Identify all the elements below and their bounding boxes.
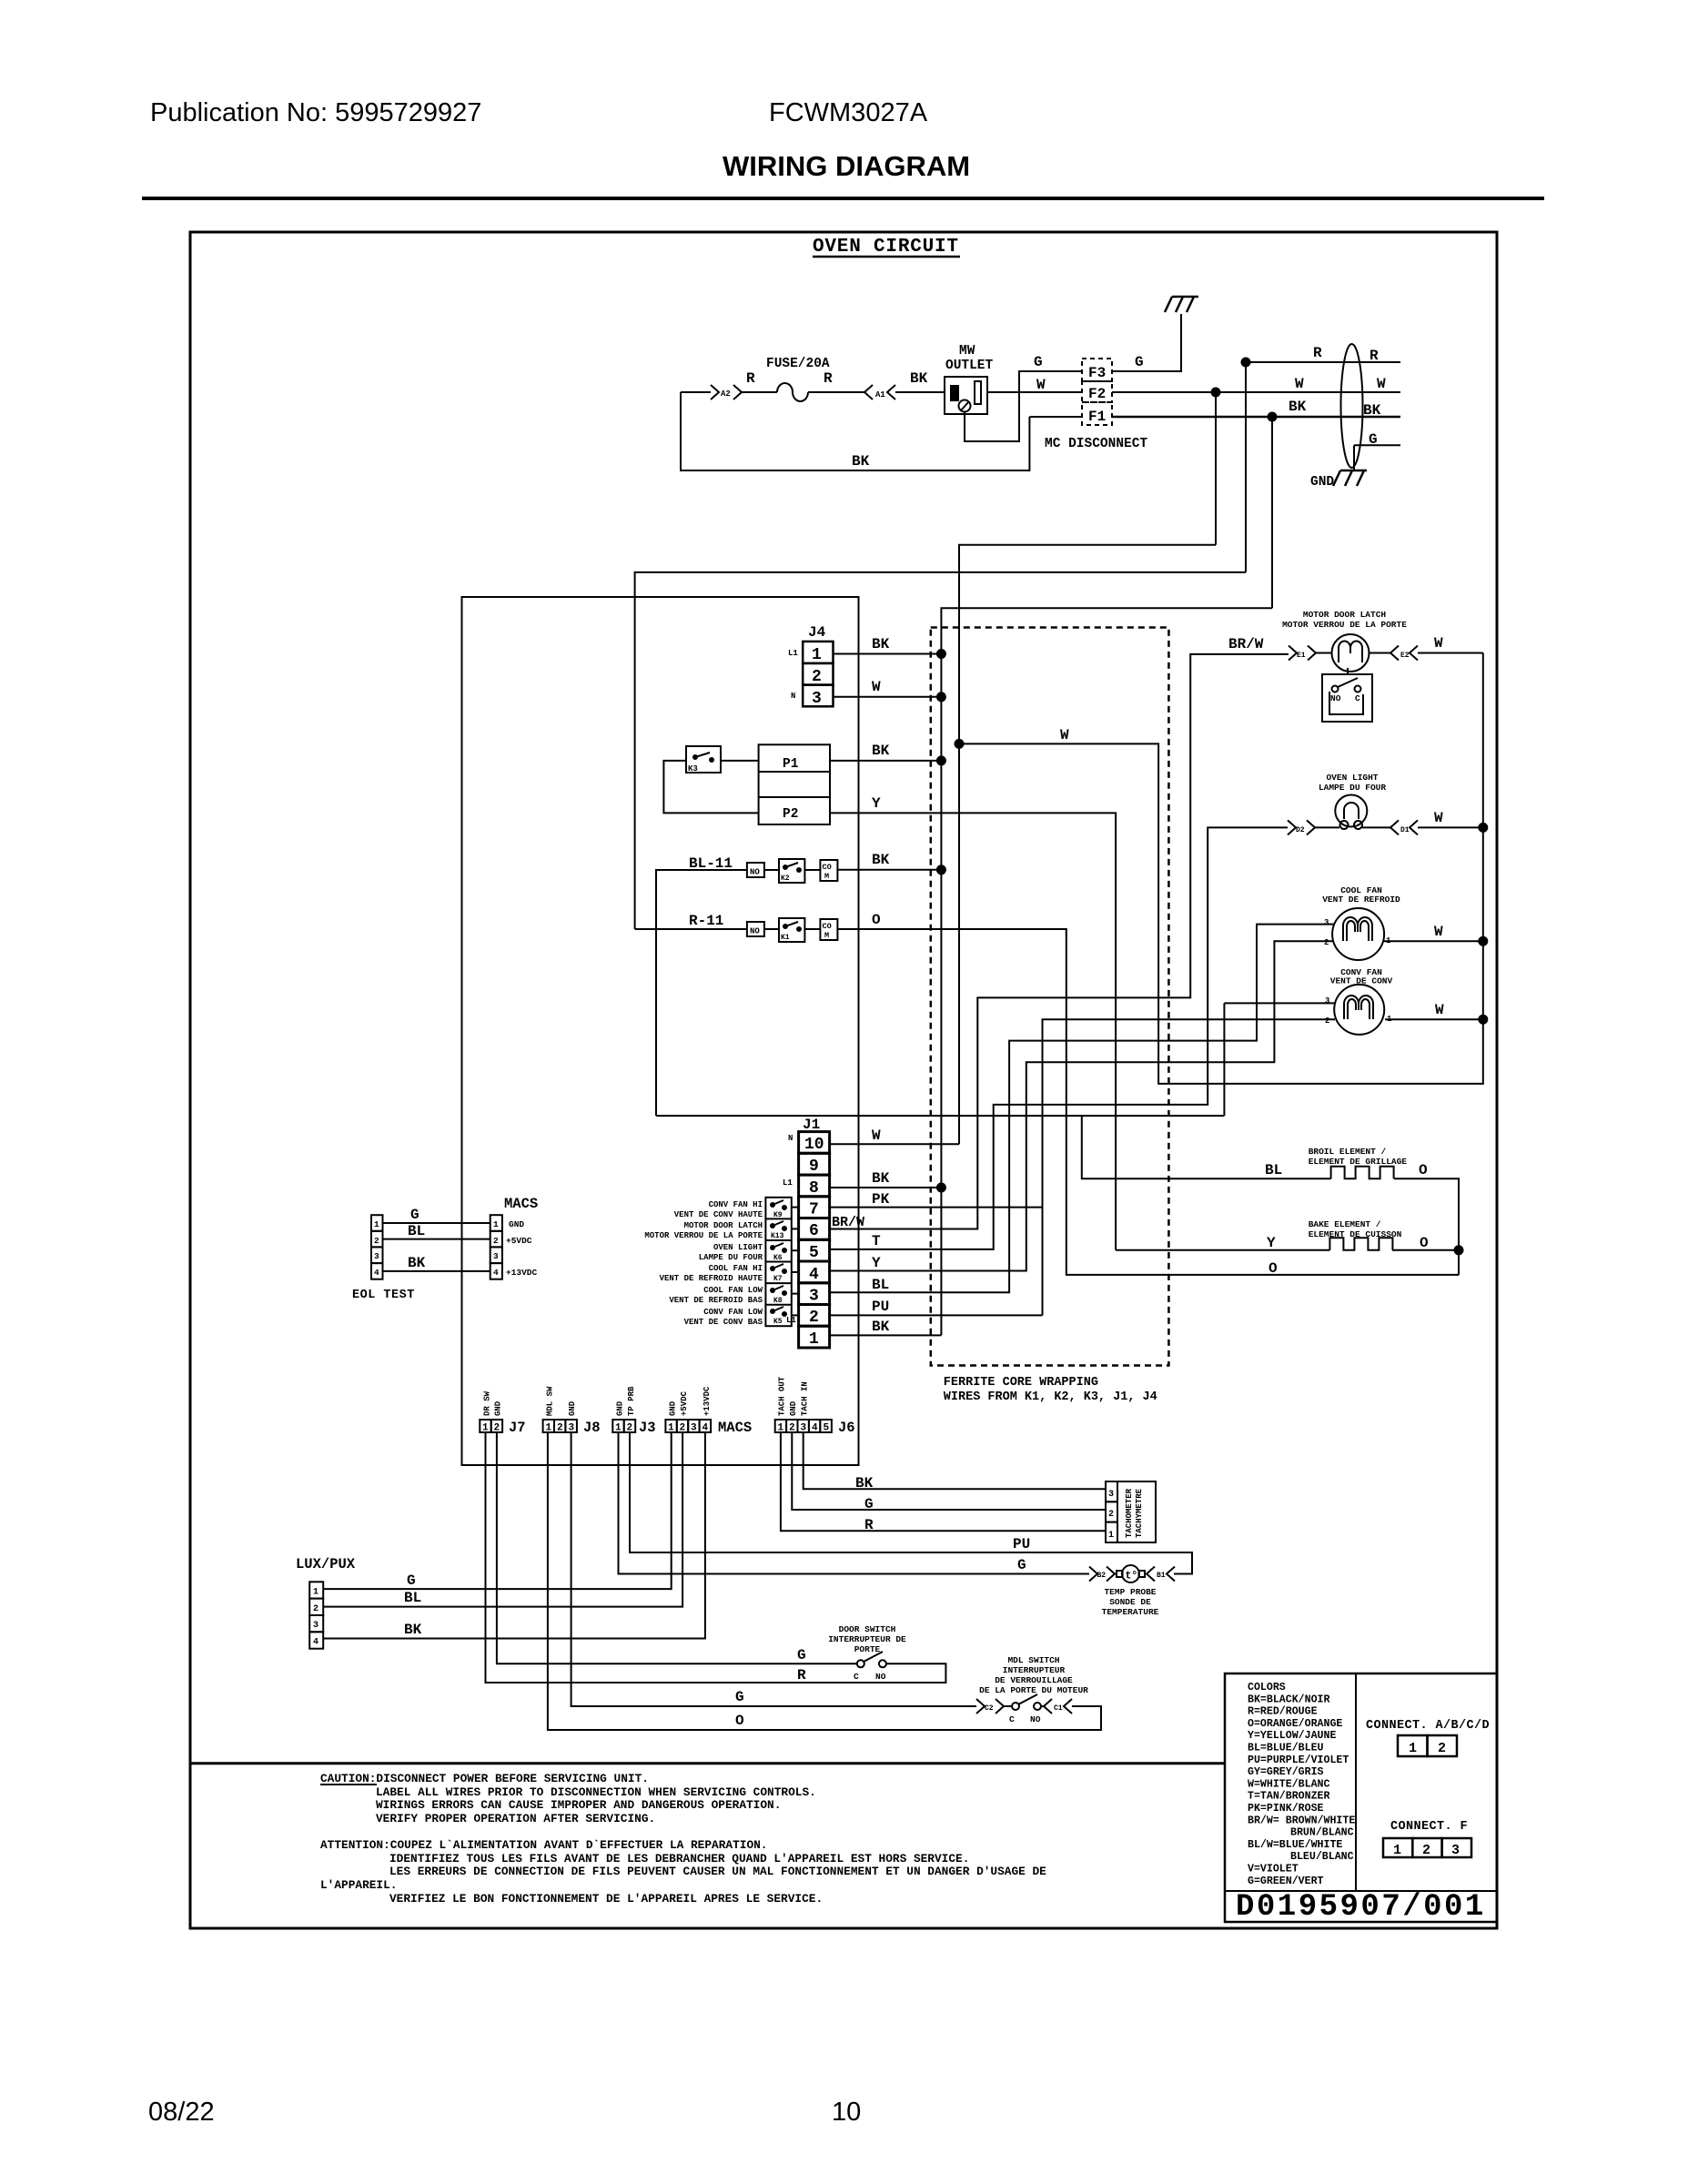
wire G EOL1 to MACS1 <box>383 1222 490 1224</box>
svg-text:1: 1 <box>812 646 822 664</box>
svg-text:OUTLET: OUTLET <box>945 359 994 373</box>
svg-text:TACH IN: TACH IN <box>801 1381 810 1416</box>
node K2 junction <box>937 865 945 874</box>
connector arrow B2 <box>1089 1567 1115 1582</box>
svg-text:Y: Y <box>872 1255 881 1271</box>
svg-text:G: G <box>1135 354 1144 370</box>
svg-text:+5VDC: +5VDC <box>506 1236 532 1246</box>
MDL switch contacts <box>1004 1705 1012 1707</box>
svg-text:C: C <box>1009 1714 1015 1724</box>
svg-text:LES ERREURS DE CONNECTION DE F: LES ERREURS DE CONNECTION DE FILS PEUVEN… <box>389 1865 1046 1878</box>
relay P1 P2 box <box>759 744 830 824</box>
node BK bus top junction <box>1269 413 1277 421</box>
fuse block F3 (dashed) <box>1082 359 1112 381</box>
wire G to GND (bottom right) <box>1354 445 1400 470</box>
wire Y from P2 to bake element feed <box>830 813 1116 1249</box>
caution text block <box>320 1772 1046 1906</box>
svg-text:VENT DE CONV HAUTE: VENT DE CONV HAUTE <box>674 1210 763 1219</box>
svg-text:1: 1 <box>374 1219 379 1229</box>
svg-text:2: 2 <box>812 668 822 686</box>
svg-text:R-11: R-11 <box>689 913 723 929</box>
svg-text:W: W <box>1036 377 1046 393</box>
node J1-8 junction <box>937 1184 945 1192</box>
svg-text:3: 3 <box>1325 996 1329 1006</box>
wire LUX2 BL to MACS2 <box>323 1432 682 1607</box>
node bake broil junction <box>1455 1246 1463 1254</box>
node cool fan W junction <box>1479 937 1487 945</box>
wire BK EOL4 to MACS4 <box>383 1270 490 1272</box>
svg-text:K9: K9 <box>773 1211 783 1219</box>
svg-text:BR/W: BR/W <box>832 1215 864 1230</box>
svg-text:3: 3 <box>801 1423 807 1434</box>
node oven light W junction <box>1479 824 1487 832</box>
svg-text:J7: J7 <box>509 1420 526 1436</box>
wire cool fan pin1 to W bus <box>1384 940 1483 942</box>
svg-text:COLORS: COLORS <box>1248 1682 1286 1694</box>
svg-text:t°: t° <box>1126 1571 1138 1582</box>
connector arrow C1 <box>1044 1699 1072 1714</box>
svg-text:P1: P1 <box>783 757 799 772</box>
relay K5 contacts <box>771 1309 774 1313</box>
fuse block F1 (dashed) <box>1082 402 1112 425</box>
svg-text:COOL FAN HI: COOL FAN HI <box>709 1264 763 1273</box>
wire PU net: J1-2 up joining conv fan low feed <box>830 1314 1043 1316</box>
svg-text:J4: J4 <box>808 624 826 641</box>
svg-text:DE LA PORTE DU MOTEUR: DE LA PORTE DU MOTEUR <box>979 1685 1088 1695</box>
node J4-3 junction <box>937 693 945 701</box>
svg-text:2: 2 <box>1438 1741 1446 1756</box>
connector MACS <box>490 1215 502 1231</box>
wire D1 to W bus <box>1418 826 1483 828</box>
svg-text:DOOR SWITCH: DOOR SWITCH <box>839 1624 896 1634</box>
wire K2 row segments <box>764 869 821 871</box>
svg-text:BAKE ELEMENT /: BAKE ELEMENT / <box>1309 1219 1381 1229</box>
wire G from F3 to ground <box>1112 314 1181 371</box>
svg-text:CONV FAN HI: CONV FAN HI <box>709 1200 763 1209</box>
svg-text:WIRINGS ERRORS CAN CAUSE IMPRO: WIRINGS ERRORS CAN CAUSE IMPROPER AND DA… <box>376 1798 781 1812</box>
svg-text:BL: BL <box>872 1277 889 1293</box>
svg-text:2: 2 <box>374 1236 379 1246</box>
svg-text:BK: BK <box>852 453 870 470</box>
svg-text:G: G <box>864 1496 874 1512</box>
svg-text:4: 4 <box>374 1268 379 1278</box>
header rule <box>142 197 1544 200</box>
contact COM box (K2 row) <box>820 860 837 881</box>
node W bus top junction <box>1212 389 1220 397</box>
svg-text:TP PRB: TP PRB <box>627 1386 636 1416</box>
svg-text:4: 4 <box>702 1423 709 1434</box>
relay K1 box <box>779 918 804 942</box>
svg-text:MC DISCONNECT: MC DISCONNECT <box>1045 437 1147 451</box>
svg-text:V=VIOLET: V=VIOLET <box>1248 1864 1299 1876</box>
node J4-1 junction <box>937 650 945 658</box>
svg-text:L1: L1 <box>788 649 798 658</box>
connector J8 <box>543 1420 554 1432</box>
svg-text:5: 5 <box>809 1244 819 1262</box>
svg-text:VERIFIEZ LE BON FONCTIONNEMENT: VERIFIEZ LE BON FONCTIONNEMENT DE L'APPA… <box>389 1892 823 1906</box>
svg-text:OVEN LIGHT: OVEN LIGHT <box>1326 773 1378 783</box>
svg-text:6: 6 <box>809 1222 819 1240</box>
svg-text:W: W <box>1434 810 1443 826</box>
contact COM box (K1 row) <box>820 919 837 940</box>
svg-text:ATTENTION:COUPEZ L`ALIMENTATIO: ATTENTION:COUPEZ L`ALIMENTATION AVANT D`… <box>320 1838 767 1852</box>
svg-text:4: 4 <box>809 1266 819 1284</box>
svg-text:D1: D1 <box>1400 826 1410 834</box>
svg-text:N: N <box>791 692 795 701</box>
svg-text:PK: PK <box>872 1191 890 1208</box>
svg-text:D0195907/001: D0195907/001 <box>1236 1890 1486 1925</box>
svg-text:VENT DE CONV BAS: VENT DE CONV BAS <box>684 1318 763 1327</box>
svg-text:M: M <box>824 872 829 881</box>
svg-text:BL: BL <box>1265 1162 1282 1178</box>
connector J6 <box>775 1420 786 1432</box>
wire J3-1 G to temp probe <box>619 1432 1090 1574</box>
oven light lamp <box>1335 795 1367 827</box>
svg-text:IDENTIFIEZ TOUS LES FILS AVANT: IDENTIFIEZ TOUS LES FILS AVANT DE LES DE… <box>389 1852 969 1865</box>
svg-text:CAUTION:DISCONNECT POWER BEFOR: CAUTION:DISCONNECT POWER BEFORE SERVICIN… <box>320 1772 649 1785</box>
wire D2 to lamp <box>1315 826 1339 828</box>
svg-text:W=WHITE/BLANC: W=WHITE/BLANC <box>1248 1778 1329 1790</box>
connector arrow E2 <box>1390 646 1418 661</box>
svg-text:10: 10 <box>804 1136 824 1154</box>
svg-text:1: 1 <box>546 1423 552 1434</box>
svg-text:GND: GND <box>509 1219 524 1229</box>
wire lamp to D1 <box>1362 826 1390 828</box>
svg-text:Y: Y <box>872 795 881 812</box>
svg-text:K1: K1 <box>781 934 790 942</box>
svg-text:OVEN LIGHT: OVEN LIGHT <box>713 1243 763 1252</box>
svg-text:W: W <box>1060 727 1069 743</box>
svg-text:J6: J6 <box>838 1420 855 1436</box>
svg-text:L'APPAREIL.: L'APPAREIL. <box>320 1878 397 1892</box>
wire BK bus vertical right <box>1271 417 1273 608</box>
wire K7 to J1-4 <box>792 1271 799 1273</box>
svg-text:GND: GND <box>789 1400 798 1416</box>
connector A/B/C/D <box>1398 1735 1428 1756</box>
wire motor to E2 <box>1370 652 1391 654</box>
wire K9 to J1-7 <box>792 1207 799 1208</box>
svg-text:1: 1 <box>1393 1843 1401 1858</box>
wire conv fan pin1 to W bus <box>1385 1018 1483 1020</box>
connector J7 <box>480 1420 490 1432</box>
svg-text:GND: GND <box>568 1400 577 1416</box>
svg-text:NO: NO <box>1330 693 1341 703</box>
control board box <box>462 597 859 1465</box>
svg-text:FUSE/20A: FUSE/20A <box>766 357 830 371</box>
svg-text:CONNECT. F: CONNECT. F <box>1390 1820 1468 1834</box>
svg-text:K6: K6 <box>773 1254 783 1262</box>
svg-text:1: 1 <box>313 1588 318 1598</box>
svg-text:FERRITE CORE WRAPPING: FERRITE CORE WRAPPING <box>944 1376 1098 1390</box>
svg-text:G: G <box>407 1572 416 1589</box>
svg-text:1: 1 <box>668 1423 674 1434</box>
relay K6 contacts <box>771 1246 774 1249</box>
svg-text:ELEMENT DE GRILLAGE: ELEMENT DE GRILLAGE <box>1309 1157 1408 1167</box>
wire T net: J1-5 to D2 <box>830 827 1288 1249</box>
wire BR/W net: J1-6 to E1 <box>830 654 1289 1229</box>
svg-text:LUX/PUX: LUX/PUX <box>296 1556 356 1572</box>
wire A2 to fuse <box>742 391 777 393</box>
svg-text:10: 10 <box>832 2098 861 2127</box>
svg-text:TACH OUT: TACH OUT <box>778 1376 787 1416</box>
svg-text:MW: MW <box>959 344 975 359</box>
svg-text:G: G <box>1034 354 1043 370</box>
MW outlet box <box>945 377 987 414</box>
ground symbol (top) <box>1165 297 1198 312</box>
wire J8-3 G to MDL switch C2 <box>571 1432 976 1706</box>
wire outlet to F2 <box>987 391 1082 393</box>
wire K13 to J1-6 <box>792 1228 799 1229</box>
wire J4-3 W to bus <box>834 696 942 698</box>
svg-text:G: G <box>1017 1557 1026 1573</box>
connector EOL TEST <box>371 1215 383 1231</box>
wire bake element row <box>1116 1249 1459 1251</box>
svg-text:BK: BK <box>404 1622 422 1638</box>
svg-text:2: 2 <box>313 1604 318 1614</box>
svg-text:BK: BK <box>872 852 890 868</box>
node W branch junction <box>955 740 964 748</box>
connector F <box>1383 1838 1412 1857</box>
svg-text:R: R <box>797 1667 806 1683</box>
svg-text:T: T <box>872 1233 881 1249</box>
bake element <box>1329 1238 1392 1250</box>
svg-text:J3: J3 <box>639 1420 656 1436</box>
svg-text:W: W <box>1434 635 1443 652</box>
wire W from F2 to right stub <box>1112 391 1400 393</box>
connector J4 <box>803 642 833 706</box>
svg-text:2: 2 <box>809 1309 819 1327</box>
legend box <box>1225 1673 1497 1922</box>
wire J1-8 BK row <box>830 1187 942 1188</box>
svg-text:NO: NO <box>875 1672 886 1682</box>
svg-text:CONNECT. A/B/C/D: CONNECT. A/B/C/D <box>1366 1719 1490 1733</box>
svg-text:C: C <box>1355 693 1360 703</box>
connector arrow D2 <box>1288 820 1315 834</box>
svg-text:GND: GND <box>669 1400 678 1416</box>
relay K13 contacts <box>771 1224 774 1228</box>
svg-text:BL/W=BLUE/WHITE: BL/W=BLUE/WHITE <box>1248 1839 1342 1851</box>
connector arrow E1 <box>1289 646 1316 661</box>
wire outlet bottom loop to F3 (G) <box>965 371 1082 441</box>
svg-text:BL: BL <box>404 1590 421 1606</box>
wire J1-1 BK row <box>830 1334 942 1336</box>
wire J3-2 PU to temp probe loop <box>630 1432 1192 1574</box>
svg-text:5: 5 <box>824 1423 830 1434</box>
svg-text:R: R <box>1313 345 1322 361</box>
svg-text:WIRES FROM K1, K2, K3, J1, J4: WIRES FROM K1, K2, K3, J1, J4 <box>944 1390 1157 1404</box>
svg-text:COOL FAN LOW: COOL FAN LOW <box>703 1286 763 1295</box>
svg-text:2: 2 <box>680 1423 686 1434</box>
svg-text:DE VERROUILLAGE: DE VERROUILLAGE <box>995 1675 1073 1685</box>
svg-text:Y: Y <box>1267 1235 1276 1251</box>
fuse block F2 (dashed) <box>1082 381 1112 402</box>
svg-text:W: W <box>1435 1002 1444 1018</box>
svg-text:MOTOR DOOR LATCH: MOTOR DOOR LATCH <box>684 1221 763 1230</box>
wire O from K1 COM down and to bake loop <box>837 929 1459 1275</box>
conv fan motor <box>1334 985 1384 1035</box>
wire R-11 row to NO <box>635 928 747 930</box>
wire J4-1 BK to bus <box>834 653 942 655</box>
connector arrow A2 <box>711 385 742 399</box>
svg-text:9: 9 <box>809 1158 819 1176</box>
svg-text:J8: J8 <box>583 1420 601 1436</box>
svg-text:O: O <box>872 912 881 928</box>
tachometer connector cells <box>1106 1481 1117 1501</box>
wire K2 COM BK to bus <box>837 869 941 871</box>
svg-text:R: R <box>824 370 833 387</box>
svg-text:1: 1 <box>482 1423 489 1434</box>
svg-text:CONV FAN LOW: CONV FAN LOW <box>703 1308 763 1317</box>
svg-text:K3: K3 <box>688 764 698 773</box>
svg-text:2: 2 <box>1108 1510 1114 1520</box>
svg-text:2: 2 <box>494 1423 500 1434</box>
svg-text:BLEU/BLANC: BLEU/BLANC <box>1290 1851 1354 1863</box>
svg-text:8: 8 <box>809 1179 819 1198</box>
connector J1 <box>799 1132 830 1348</box>
svg-text:1: 1 <box>615 1423 622 1434</box>
wire Y net: J1-4 to cool fan pin2 <box>830 941 1332 1270</box>
svg-text:GY=GREY/GRIS: GY=GREY/GRIS <box>1248 1766 1324 1778</box>
svg-text:PORTE: PORTE <box>854 1644 881 1654</box>
svg-text:W: W <box>1295 376 1304 392</box>
svg-text:PU=PURPLE/VIOLET: PU=PURPLE/VIOLET <box>1248 1754 1349 1766</box>
svg-text:2: 2 <box>493 1236 499 1246</box>
svg-text:G=GREEN/VERT: G=GREEN/VERT <box>1248 1876 1324 1887</box>
svg-text:PU: PU <box>1013 1536 1030 1552</box>
svg-text:GND: GND <box>1310 475 1334 490</box>
svg-text:BK: BK <box>872 1170 890 1187</box>
svg-text:ELEMENT DE CUISSON: ELEMENT DE CUISSON <box>1309 1229 1402 1239</box>
outer border box <box>190 232 1497 1928</box>
svg-text:W: W <box>872 679 881 695</box>
svg-text:A1: A1 <box>875 390 885 399</box>
caution underline <box>320 1784 377 1785</box>
wire E2 to W bus <box>1418 652 1483 654</box>
svg-text:BK: BK <box>1289 399 1307 415</box>
svg-text:MOTOR DOOR LATCH: MOTOR DOOR LATCH <box>1303 610 1387 620</box>
svg-text:1: 1 <box>1108 1531 1114 1541</box>
svg-text:INTERRUPTEUR DE: INTERRUPTEUR DE <box>828 1634 906 1644</box>
svg-text:3: 3 <box>569 1423 575 1434</box>
divider line above caution text <box>190 1762 1225 1764</box>
motor latch switch box <box>1322 674 1372 722</box>
wire PK net: J1-7 up to conv fan pin2 <box>830 1019 1335 1207</box>
svg-text:PK=PINK/ROSE: PK=PINK/ROSE <box>1248 1803 1324 1815</box>
svg-text:T=TAN/BRONZER: T=TAN/BRONZER <box>1248 1791 1329 1803</box>
svg-text:D2: D2 <box>1296 826 1305 834</box>
node P1 junction <box>937 756 945 764</box>
relay K9 contacts <box>771 1203 774 1207</box>
svg-text:PU: PU <box>872 1299 889 1315</box>
svg-text:08/22: 08/22 <box>148 2098 215 2127</box>
svg-text:BR/W= BROWN/WHITE: BR/W= BROWN/WHITE <box>1248 1815 1355 1826</box>
svg-text:BK: BK <box>1363 402 1381 419</box>
contact NO box (K2 row) <box>747 863 764 877</box>
svg-text:O: O <box>1419 1162 1428 1178</box>
svg-text:2: 2 <box>1325 1016 1329 1026</box>
svg-text:2: 2 <box>789 1423 795 1434</box>
cable wrap ellipse <box>1341 344 1363 468</box>
svg-text:TACHOMETER: TACHOMETER <box>1125 1488 1134 1538</box>
wire into A2 arrow <box>681 391 711 393</box>
svg-text:N: N <box>788 1134 793 1143</box>
svg-text:TACHYMETRE: TACHYMETRE <box>1135 1488 1144 1538</box>
svg-text:W: W <box>872 1127 881 1144</box>
svg-text:GND: GND <box>616 1400 625 1416</box>
svg-text:K2: K2 <box>781 875 790 883</box>
wire BL-11 left drop <box>656 870 747 1116</box>
svg-text:R: R <box>864 1517 874 1533</box>
svg-text:VENT DE REFROID BAS: VENT DE REFROID BAS <box>669 1296 763 1305</box>
wire J6-1 R to tachometer <box>781 1432 1106 1531</box>
svg-text:VENT DE REFROID HAUTE: VENT DE REFROID HAUTE <box>660 1274 763 1283</box>
relay column K9..K5 box <box>765 1198 791 1326</box>
svg-text:2: 2 <box>1324 938 1329 947</box>
temp probe <box>1117 1571 1123 1577</box>
svg-text:K7: K7 <box>773 1275 783 1283</box>
colors legend text <box>1248 1682 1355 1887</box>
wire LUX1 G to MACS1 <box>323 1432 672 1589</box>
wire R bus vertical right <box>1245 362 1247 572</box>
wire BK loop from A2 to F1 (bottom left) <box>681 392 1029 470</box>
svg-text:O: O <box>735 1713 744 1729</box>
svg-text:FCWM3027A: FCWM3027A <box>769 98 928 127</box>
svg-text:3: 3 <box>1451 1843 1460 1858</box>
svg-text:1: 1 <box>1409 1741 1417 1756</box>
svg-text:2: 2 <box>1422 1843 1430 1858</box>
svg-text:MACS: MACS <box>718 1420 752 1436</box>
connector arrow D1 <box>1390 820 1418 834</box>
svg-text:LABEL ALL WIRES PRIOR TO DISCO: LABEL ALL WIRES PRIOR TO DISCONNECTION W… <box>376 1785 816 1799</box>
relay K2 box <box>779 859 804 883</box>
svg-text:NO: NO <box>750 868 760 877</box>
wire K8 to J1-3 <box>792 1293 799 1295</box>
svg-text:LAMPE DU FOUR: LAMPE DU FOUR <box>1319 783 1386 793</box>
svg-text:1: 1 <box>809 1330 819 1349</box>
svg-text:3: 3 <box>1324 918 1329 927</box>
svg-text:MOTOR VERROU DE LA PORTE: MOTOR VERROU DE LA PORTE <box>644 1231 763 1240</box>
svg-text:E2: E2 <box>1400 652 1410 660</box>
svg-text:3: 3 <box>313 1621 318 1631</box>
svg-text:O=ORANGE/ORANGE: O=ORANGE/ORANGE <box>1248 1718 1342 1730</box>
svg-text:3: 3 <box>809 1288 819 1306</box>
svg-text:3: 3 <box>812 690 822 708</box>
svg-text:OVEN CIRCUIT: OVEN CIRCUIT <box>813 237 959 258</box>
wire W feeder horizontal <box>959 545 1216 1144</box>
wire broil element right to bake junction <box>1394 1178 1459 1250</box>
svg-text:EOL TEST: EOL TEST <box>352 1289 415 1302</box>
ground symbol GND <box>1333 470 1367 486</box>
svg-text:NO: NO <box>750 927 760 936</box>
connector arrow A1 <box>864 385 895 399</box>
connector J3 <box>612 1420 623 1432</box>
relay K3 box <box>686 746 721 773</box>
svg-text:TEMPERATURE: TEMPERATURE <box>1102 1607 1159 1617</box>
connector MACS (bottom) <box>665 1420 676 1432</box>
svg-text:BL: BL <box>408 1223 425 1239</box>
svg-text:C2: C2 <box>985 1704 994 1713</box>
svg-text:O: O <box>1269 1260 1278 1277</box>
wire BL-11 net horizontal to conv fan pin3 <box>656 1003 1335 1116</box>
wire J6-2 G to tachometer <box>792 1432 1106 1510</box>
wire E1 to motor <box>1316 652 1332 654</box>
svg-text:C1: C1 <box>1054 1704 1063 1713</box>
relay K8 contacts <box>771 1289 774 1292</box>
contact NO box (K1 row) <box>747 922 764 936</box>
tachometer box <box>1117 1481 1156 1542</box>
svg-text:G: G <box>735 1689 744 1705</box>
svg-text:B1: B1 <box>1157 1572 1166 1580</box>
